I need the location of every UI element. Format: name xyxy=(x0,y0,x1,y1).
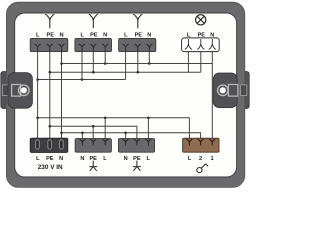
svg-text:PE: PE xyxy=(135,32,143,38)
wire drop socket1 L xyxy=(104,118,106,139)
branch pictogram above X3 xyxy=(133,14,142,28)
svg-text:N: N xyxy=(103,32,107,38)
branch pictogram above X2 xyxy=(89,14,98,28)
svg-text:L: L xyxy=(103,156,107,162)
svg-text:PE: PE xyxy=(46,156,54,162)
svg-text:N: N xyxy=(59,32,63,38)
wire drop socket2 L xyxy=(147,118,149,139)
svg-text:N: N xyxy=(210,32,214,38)
wire drop lamp PE xyxy=(200,52,202,73)
svg-text:L: L xyxy=(36,32,40,38)
svg-text:1: 1 xyxy=(210,156,213,162)
wire drop X2 N xyxy=(104,52,106,64)
junction dots xyxy=(36,62,150,134)
svg-text:N: N xyxy=(124,156,128,162)
branch pictogram above X1 xyxy=(45,14,54,28)
earth symbol under X7 xyxy=(133,161,141,171)
svg-text:PE: PE xyxy=(90,32,98,38)
connector X3 top output block xyxy=(119,38,156,51)
wire drop X3 PE xyxy=(137,52,139,73)
svg-text:N: N xyxy=(59,156,63,162)
connector X4 lamp output block (outlined) xyxy=(182,38,220,52)
svg-text:PE: PE xyxy=(47,32,55,38)
wire drop X2 PE xyxy=(92,52,94,73)
svg-text:230 V IN: 230 V IN xyxy=(38,164,63,171)
svg-text:L: L xyxy=(80,32,84,38)
wire drop X3 N xyxy=(148,52,150,64)
wire vertical PE input riser xyxy=(49,52,51,139)
wire N bus bottom xyxy=(62,133,201,139)
connector X6 socket feed block xyxy=(75,139,111,153)
wire PE bus bottom xyxy=(50,126,137,139)
connector X1 top output block xyxy=(30,38,68,51)
svg-text:2: 2 xyxy=(199,156,202,162)
svg-text:N: N xyxy=(80,156,84,162)
svg-text:L: L xyxy=(124,32,128,38)
wire drop socket1 N xyxy=(81,133,83,139)
wire drop X2 L xyxy=(81,52,83,80)
wire L bus bottom xyxy=(38,118,190,139)
label X6 N PE L xyxy=(80,156,107,162)
wire drop lamp L xyxy=(187,52,189,73)
wire lamp N to switch terminal 1 xyxy=(211,52,213,139)
wire L bus top xyxy=(38,79,126,81)
connector X5 mains input block 230V xyxy=(30,138,68,152)
label X2 L PE N xyxy=(80,32,107,38)
svg-text:L: L xyxy=(36,156,40,162)
label X7 N PE L xyxy=(124,156,151,162)
svg-text:N: N xyxy=(147,32,151,38)
switch symbol under X8 xyxy=(197,164,208,173)
connector X2 top output block xyxy=(75,38,112,51)
wire vertical N input riser xyxy=(61,52,63,139)
wire N bus top xyxy=(62,63,213,65)
right ear screw slot xyxy=(241,85,247,96)
enclosure outer wall xyxy=(1,72,9,109)
wire vertical L input riser xyxy=(37,52,39,139)
label X5 L PE N xyxy=(36,156,63,162)
wire PE bus top xyxy=(50,71,201,73)
wire drop socket2 N xyxy=(125,133,127,139)
connector X8 switch block (brown) xyxy=(183,138,219,152)
svg-text:L: L xyxy=(188,156,192,162)
svg-text:L: L xyxy=(146,156,150,162)
lamp symbol xyxy=(196,15,206,25)
label X8 L 2 1 xyxy=(188,156,214,162)
wire drop socket1 PE xyxy=(92,126,94,139)
enclosure inner cavity xyxy=(15,13,237,177)
right mounting tab xyxy=(213,73,238,108)
label X4 L PE N xyxy=(187,32,214,38)
label X1 L PE N xyxy=(36,32,63,38)
svg-text:PE: PE xyxy=(198,32,206,38)
left ear screw slot xyxy=(3,85,9,96)
svg-text:L: L xyxy=(187,32,191,38)
label X3 L PE N xyxy=(124,32,151,38)
wire drop X3 L xyxy=(125,52,127,80)
earth symbol under X6 xyxy=(89,161,97,171)
left mounting tab xyxy=(8,73,32,109)
connector X7 socket feed block xyxy=(118,139,154,153)
